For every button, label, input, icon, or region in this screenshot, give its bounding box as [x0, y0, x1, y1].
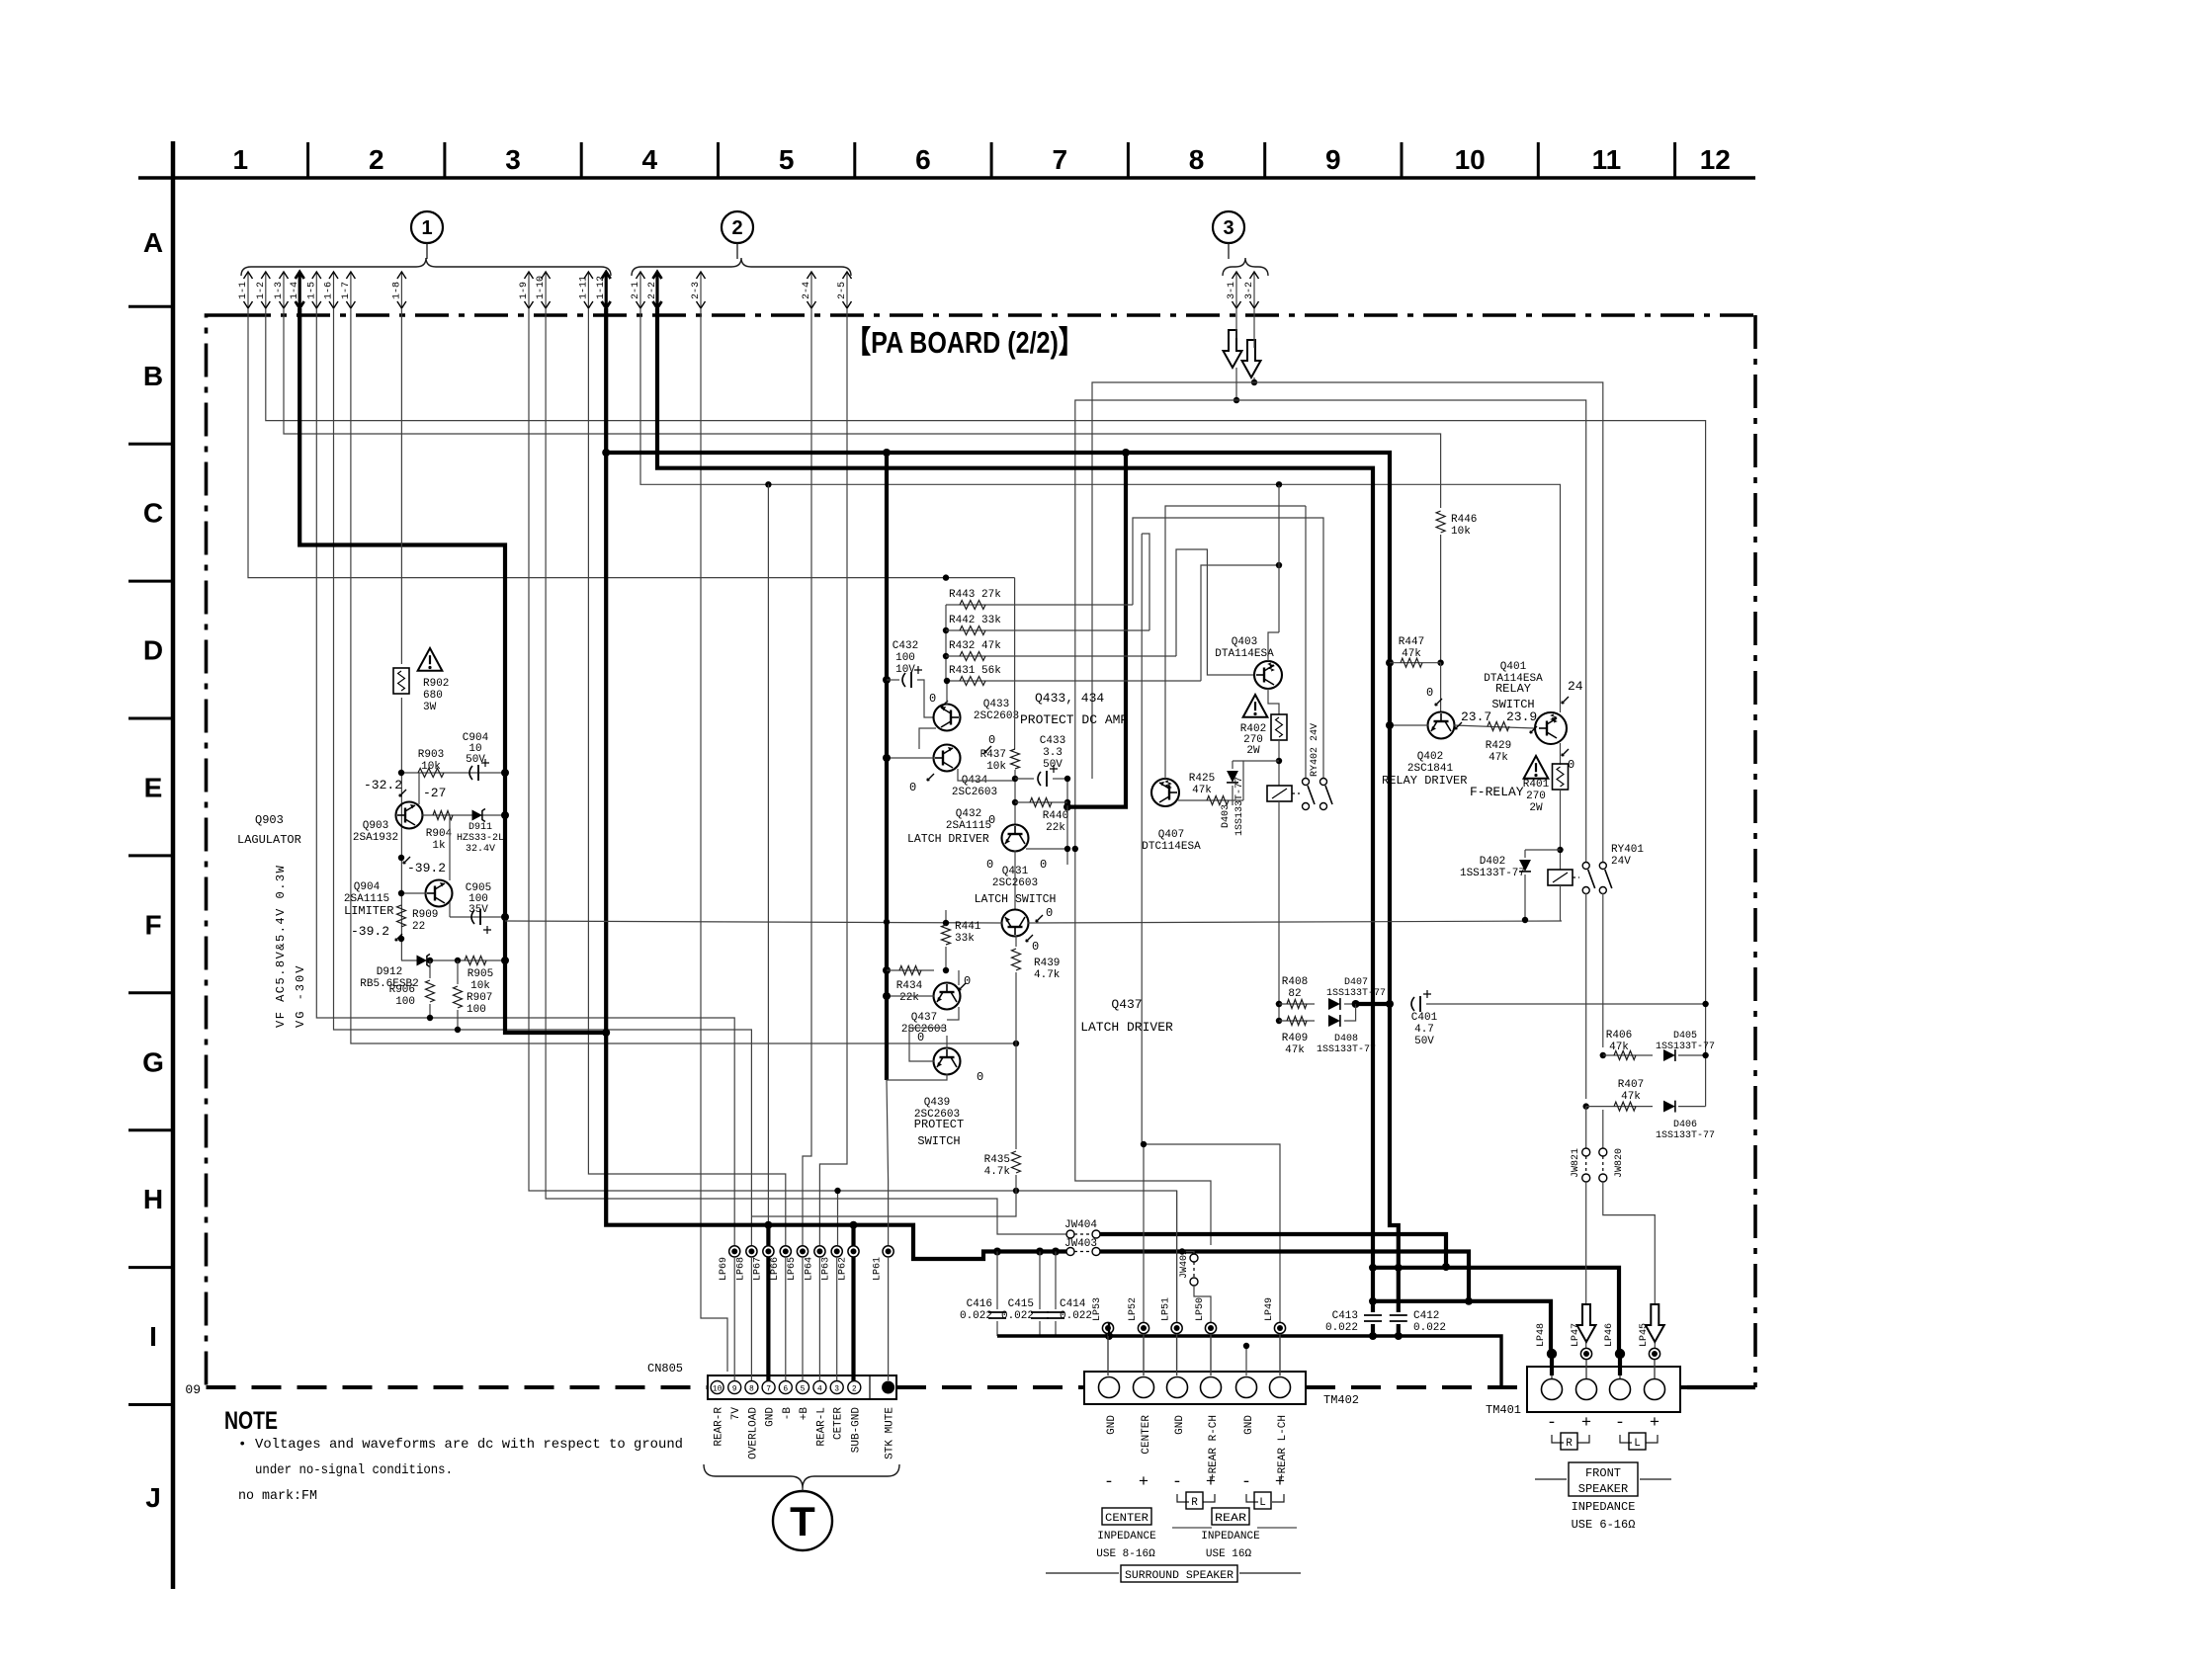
svg-text:22k: 22k	[1046, 822, 1065, 834]
svg-text:INPEDANCE: INPEDANCE	[1097, 1531, 1156, 1542]
resistor R434 22k	[883, 966, 891, 974]
svg-text:Q401: Q401	[1500, 661, 1527, 673]
connector pin 1-5	[315, 273, 317, 308]
svg-text:0: 0	[964, 974, 971, 988]
resistor R440 22k	[1012, 799, 1018, 805]
wire Q407 collector up y=512	[1165, 506, 1306, 779]
transistor Q403 DTA114ESA	[1254, 661, 1282, 689]
svg-text:+: +	[1206, 1473, 1216, 1492]
svg-text:47k: 47k	[1192, 785, 1212, 796]
svg-text:-: -	[1104, 1473, 1114, 1492]
node -39.2 lower	[398, 936, 404, 942]
wire Q434 collector down	[958, 769, 1015, 781]
svg-text:R903: R903	[418, 749, 444, 761]
svg-text:5: 5	[779, 144, 795, 175]
connector pin 2-2	[655, 273, 658, 308]
svg-text:R443 27k: R443 27k	[949, 589, 1001, 601]
svg-text:24: 24	[1568, 679, 1583, 694]
wire JW820 to LP45	[1603, 1182, 1656, 1358]
svg-text:1-12: 1-12	[596, 276, 607, 299]
FRONT SPEAKER box	[1535, 1478, 1567, 1480]
wire Q401 collector down	[1560, 743, 1562, 765]
transistor Q903 2SA1932	[396, 802, 423, 829]
jumper JW404	[997, 1230, 1066, 1234]
R box front	[1552, 1435, 1589, 1443]
svg-text:22: 22	[412, 921, 425, 933]
svg-text:D911: D911	[468, 822, 492, 833]
TM402 terminal GND	[1099, 1377, 1120, 1398]
resistor R435 4.7k	[1012, 1151, 1021, 1173]
svg-text:SWITCH: SWITCH	[917, 1134, 960, 1148]
svg-text:+B: +B	[799, 1407, 810, 1421]
diode D406 1SS133T-77	[1663, 1101, 1675, 1113]
TM402 terminal +REAR R-CH	[1201, 1377, 1222, 1398]
svg-text:PROTECT: PROTECT	[914, 1118, 964, 1131]
wire 1-7	[351, 308, 1016, 1043]
capacitor C401 4.7 50V	[1411, 997, 1414, 1011]
hollow arrow LP45	[1646, 1304, 1664, 1342]
svg-text:2: 2	[852, 1385, 857, 1394]
svg-text:LP64: LP64	[804, 1257, 814, 1281]
svg-text:1-9: 1-9	[519, 282, 530, 299]
svg-text:C433: C433	[1040, 735, 1065, 747]
svg-text:R401: R401	[1523, 779, 1550, 791]
wire 1-5	[316, 308, 734, 1245]
relay RY401 contacts	[1582, 863, 1589, 870]
connector pin 1-3	[283, 273, 285, 308]
svg-text:0: 0	[988, 733, 995, 747]
wire Q904 collector	[449, 902, 451, 917]
svg-text:C412: C412	[1413, 1310, 1439, 1322]
diode D911 HZS33-2L 32.4V	[465, 814, 505, 816]
node -39.2 upper	[398, 855, 404, 861]
svg-text:VG -30V: VG -30V	[294, 964, 307, 1028]
svg-text:35V: 35V	[468, 904, 488, 916]
svg-text:11: 11	[1592, 144, 1622, 175]
jumper JW820	[1602, 1110, 1604, 1148]
wire Q403 emitter up	[1268, 632, 1279, 661]
wire R402 to RY402 coil	[1278, 740, 1280, 786]
svg-text:+REAR R-CH: +REAR R-CH	[1208, 1415, 1220, 1480]
pad LP46	[1615, 1349, 1625, 1359]
resistor R904 1k	[422, 814, 465, 816]
CN805 pin 9 7V	[728, 1381, 741, 1394]
wire latch column	[1014, 578, 1016, 749]
svg-text:0.022: 0.022	[1060, 1310, 1092, 1322]
svg-text:LATCH DRIVER: LATCH DRIVER	[1080, 1020, 1173, 1035]
resistor ladder rail	[945, 605, 947, 681]
svg-text:R406: R406	[1606, 1030, 1632, 1042]
svg-text:-B: -B	[782, 1407, 794, 1421]
svg-text:D402: D402	[1480, 856, 1505, 868]
L box front	[1620, 1435, 1658, 1443]
wires pads to connector	[733, 1257, 735, 1380]
svg-text:CN805: CN805	[647, 1362, 683, 1375]
connector pin 1-12	[605, 273, 608, 308]
diode D407 1SS133T-77	[1328, 998, 1340, 1010]
transistor Q407 DTC114ESA	[1151, 779, 1179, 806]
svg-text:3-1: 3-1	[1227, 282, 1237, 299]
L box surround	[1246, 1494, 1284, 1502]
svg-text:Q433, 434: Q433, 434	[1035, 691, 1104, 706]
ruler frame	[138, 176, 1755, 180]
connector pin 1-7	[350, 273, 352, 308]
svg-text:1-10: 1-10	[536, 276, 547, 299]
svg-text:JW820: JW820	[1614, 1148, 1625, 1178]
resistor R905 10k	[465, 957, 486, 965]
svg-text:LP65: LP65	[787, 1257, 798, 1281]
pad LP49	[1274, 1322, 1285, 1333]
svg-text:R429: R429	[1486, 740, 1511, 752]
svg-text:2-4: 2-4	[802, 282, 812, 299]
resistor R903 10k	[401, 772, 505, 774]
heavy CN805 GND drop	[766, 1225, 770, 1381]
transistor Q434 2SC2603	[934, 745, 961, 772]
capacitor C412 0.022	[1390, 1312, 1407, 1324]
R box surround	[1177, 1494, 1215, 1502]
svg-text:Voltages and waveforms are dc: Voltages and waveforms are dc with respe…	[255, 1437, 683, 1453]
svg-text:Q402: Q402	[1417, 751, 1443, 763]
jumper JW821	[1585, 1107, 1587, 1148]
CN805 pin 3 CETER	[830, 1381, 843, 1394]
wire Q402 emitter to rail	[1390, 724, 1428, 726]
svg-text:3: 3	[1223, 217, 1234, 239]
svg-text:RELAY: RELAY	[1495, 682, 1531, 696]
wire latch to LP50	[1075, 849, 1211, 1245]
connector group 1 circled number	[411, 211, 443, 243]
svg-text:D: D	[143, 635, 163, 666]
connector pin 1-8	[400, 273, 402, 308]
riser R442 to y=540	[1142, 534, 1149, 630]
svg-text:09: 09	[185, 1382, 201, 1397]
svg-text:47k: 47k	[1621, 1091, 1641, 1103]
svg-text:RELAY DRIVER: RELAY DRIVER	[1382, 774, 1467, 788]
svg-text:5: 5	[801, 1385, 806, 1394]
svg-text:4.7: 4.7	[1414, 1024, 1434, 1036]
svg-text:2-2: 2-2	[647, 282, 658, 299]
wire Q903 emitter	[418, 773, 420, 804]
wire Q439	[909, 1028, 946, 1061]
svg-text:LP69: LP69	[719, 1257, 729, 1281]
pad LP62	[848, 1246, 859, 1257]
svg-text:Q407: Q407	[1158, 829, 1184, 841]
svg-text:PROTECT DC AMP: PROTECT DC AMP	[1020, 712, 1128, 727]
svg-text:J: J	[145, 1482, 161, 1513]
wire R401 to coil	[1560, 790, 1562, 870]
svg-text:D407: D407	[1344, 977, 1368, 988]
wire GND column from y=490.3	[767, 484, 769, 1224]
CN805 pin 7 GND	[762, 1381, 775, 1394]
svg-text:LP67: LP67	[752, 1257, 763, 1281]
connector pin 1-1	[247, 273, 249, 308]
svg-text:23.9: 23.9	[1506, 709, 1537, 724]
capacitor C904 10 50V	[469, 766, 472, 780]
resistor R442 33k	[946, 629, 1149, 631]
svg-text:4.7k: 4.7k	[984, 1166, 1011, 1178]
wire Q431 emitter down	[1015, 936, 1017, 947]
svg-text:2SA1115: 2SA1115	[946, 820, 991, 832]
svg-text:Q903: Q903	[255, 813, 284, 827]
svg-text:R434: R434	[896, 980, 923, 992]
svg-text:9: 9	[732, 1385, 737, 1394]
svg-text:R432 47k: R432 47k	[949, 640, 1001, 652]
transistor Q439 2SC2603 PROTECT SWITCH	[934, 1048, 961, 1075]
svg-text:INPEDANCE: INPEDANCE	[1201, 1531, 1260, 1542]
connector pin 1-6	[333, 273, 335, 308]
wire 2-4	[803, 308, 811, 1245]
heavy TM401 right stub	[1687, 1385, 1755, 1389]
svg-text:-32.2: -32.2	[364, 778, 402, 792]
heavy rail B 2-2 y=473.7	[657, 308, 1373, 1336]
connector group 3 circled number	[1213, 211, 1244, 243]
svg-text:0.022: 0.022	[960, 1310, 992, 1322]
svg-text:G: G	[142, 1046, 164, 1077]
svg-text:R439: R439	[1034, 958, 1060, 969]
wire 1-3 net y=439	[284, 308, 1441, 508]
brace connector 2	[632, 258, 851, 276]
relay RY402 contacts	[1303, 779, 1310, 786]
wire 1-10 branch LP69	[733, 1198, 735, 1200]
resistor R441 33k	[945, 910, 947, 923]
resistor R406 47k	[1600, 1052, 1606, 1058]
svg-text:6: 6	[915, 144, 931, 175]
wire TM402 GND pins	[1108, 1322, 1110, 1336]
heavy protect supply x=897	[885, 453, 889, 1080]
svg-text:Q432: Q432	[956, 808, 981, 820]
svg-text:R435: R435	[984, 1154, 1010, 1166]
capacitor C433 3.3 50V	[1012, 776, 1018, 782]
resistor R431 56k	[946, 680, 1201, 682]
svg-text:1SS133T-77: 1SS133T-77	[1460, 868, 1525, 879]
svg-text:22k: 22k	[899, 992, 919, 1004]
connector pin 3-1	[1235, 273, 1237, 308]
svg-text:Q433: Q433	[983, 699, 1009, 710]
svg-text:USE 6-16Ω: USE 6-16Ω	[1572, 1518, 1636, 1532]
svg-text:1SS133T-77: 1SS133T-77	[1656, 1042, 1715, 1052]
riser R432	[1176, 549, 1255, 675]
svg-text:LP62: LP62	[838, 1257, 849, 1281]
svg-text:R: R	[1566, 1438, 1573, 1450]
wire Q904 emitter up	[449, 815, 451, 880]
hollow arrow LP47	[1577, 1304, 1596, 1342]
TM402 terminal GND	[1236, 1377, 1257, 1398]
svg-text:CENTER: CENTER	[1105, 1513, 1149, 1525]
svg-text:270: 270	[1526, 791, 1546, 802]
transistor Q431 2SC2603 LATCH SWITCH	[1002, 910, 1029, 937]
svg-text:50V: 50V	[1043, 759, 1063, 771]
CN805 pin 6 -B	[779, 1381, 792, 1394]
svg-text:Q903: Q903	[363, 820, 388, 832]
svg-text:C432: C432	[893, 640, 918, 652]
pad LP65	[797, 1246, 808, 1257]
svg-text:no mark:FM: no mark:FM	[238, 1488, 317, 1504]
svg-text:GND: GND	[1174, 1415, 1186, 1435]
svg-text:R907: R907	[467, 992, 492, 1004]
svg-text:0: 0	[977, 1070, 983, 1084]
resistor R907 100	[455, 958, 461, 963]
svg-text:USE 16Ω: USE 16Ω	[1206, 1548, 1252, 1560]
wire C432 to Q433 base	[917, 680, 934, 717]
svg-text:LATCH DRIVER: LATCH DRIVER	[907, 833, 989, 846]
svg-text:LP68: LP68	[735, 1257, 746, 1281]
svg-text:VF AC5.8V&5.4V 0.3W: VF AC5.8V&5.4V 0.3W	[274, 865, 288, 1028]
svg-text:3W: 3W	[423, 702, 437, 713]
svg-text:REAR: REAR	[1215, 1513, 1246, 1525]
svg-text:INPEDANCE: INPEDANCE	[1572, 1500, 1636, 1514]
CN805 pin STK MUTE	[882, 1381, 894, 1394]
wire Q433/Q434 emitter join	[919, 728, 936, 749]
heavy link D407 to rails	[1356, 1002, 1391, 1006]
capacitor C416 0.022	[993, 1248, 1001, 1256]
connector pin 1-9	[528, 273, 530, 308]
svg-text:LIMITER: LIMITER	[344, 904, 393, 918]
svg-text:2-1: 2-1	[631, 282, 641, 299]
terminal block TM401	[1527, 1367, 1680, 1412]
capacitor C432 100 10V	[883, 676, 891, 684]
pad LP69	[729, 1246, 740, 1257]
terminal block TM402	[1084, 1372, 1306, 1404]
svg-text:R440: R440	[1043, 810, 1068, 822]
svg-text:2: 2	[369, 144, 384, 175]
diode D403 1SS133T-77	[1233, 760, 1279, 762]
SURROUND SPEAKER box	[1046, 1572, 1119, 1574]
wire Q904 base	[401, 892, 426, 894]
svg-text:R906: R906	[389, 984, 415, 996]
svg-text:1k: 1k	[432, 840, 446, 852]
pad LP52	[1138, 1322, 1149, 1333]
wire Q432 emitter/collector	[1026, 848, 1067, 850]
svg-text:3: 3	[505, 144, 521, 175]
resistor R425 47k	[1178, 799, 1243, 801]
svg-text:2SC2603: 2SC2603	[952, 787, 997, 798]
svg-text:R409: R409	[1282, 1033, 1308, 1044]
svg-text:LP53: LP53	[1092, 1297, 1103, 1321]
svg-text:C: C	[143, 498, 163, 529]
relay coil RY402	[1267, 786, 1292, 801]
svg-text:HZS33-2L: HZS33-2L	[457, 833, 504, 844]
svg-text:C401: C401	[1411, 1012, 1438, 1024]
svg-text:L: L	[1634, 1438, 1641, 1450]
connector group 2 circled number	[722, 211, 753, 243]
svg-text:10: 10	[713, 1385, 723, 1394]
svg-text:8: 8	[749, 1385, 754, 1394]
svg-text:+: +	[1275, 1473, 1285, 1492]
svg-text:FRONT: FRONT	[1585, 1466, 1621, 1480]
transistor Q433 2SC2603	[934, 705, 961, 731]
connector pin 1-10	[545, 273, 547, 308]
ground bus	[997, 1336, 1501, 1387]
svg-text:REAR-L: REAR-L	[815, 1407, 827, 1447]
svg-text:3.3: 3.3	[1043, 747, 1063, 759]
resistor R906 100	[427, 958, 433, 963]
svg-text:LP61: LP61	[873, 1257, 884, 1281]
svg-text:50V: 50V	[466, 754, 485, 766]
wire LP68 from R435	[751, 1191, 1016, 1216]
svg-text:SPEAKER: SPEAKER	[1578, 1482, 1628, 1496]
svg-text:10k: 10k	[986, 761, 1006, 773]
transistor Q432 2SA1115 LATCH DRIVER	[1002, 825, 1029, 852]
wire 2-5	[819, 308, 847, 1245]
svg-text:82: 82	[1288, 988, 1301, 1000]
diode D402 1SS133T-77	[1525, 849, 1561, 851]
wire Q437	[887, 995, 934, 997]
wire Q433 collector to ladder	[946, 681, 948, 705]
svg-text:GND: GND	[1243, 1415, 1255, 1435]
svg-text:R904: R904	[426, 828, 453, 840]
svg-text:LP52: LP52	[1128, 1297, 1139, 1321]
resistor R439 4.7k	[1012, 949, 1021, 970]
resistor R432 47k	[946, 655, 1176, 657]
svg-text:4: 4	[817, 1385, 822, 1394]
svg-text:3: 3	[834, 1385, 839, 1394]
resistor R402 270 2W	[1271, 714, 1287, 740]
svg-text:1: 1	[421, 217, 432, 239]
svg-text:8: 8	[1189, 144, 1205, 175]
wire net y=405	[1075, 400, 1586, 866]
pad LP68	[746, 1246, 757, 1257]
svg-text:+REAR L-CH: +REAR L-CH	[1277, 1415, 1289, 1480]
svg-text:1: 1	[233, 144, 249, 175]
svg-text:0: 0	[986, 858, 993, 872]
svg-text:6: 6	[783, 1385, 788, 1394]
svg-text:1-3: 1-3	[274, 282, 285, 299]
brace connector 1	[241, 258, 611, 276]
svg-text:C415: C415	[1008, 1298, 1034, 1310]
svg-text:F-RELAY: F-RELAY	[1470, 785, 1524, 799]
svg-text:A: A	[143, 227, 163, 258]
svg-text:47k: 47k	[1285, 1044, 1305, 1056]
transistor Q437 2SC2603	[934, 983, 961, 1010]
jumper JW402	[1182, 1252, 1194, 1255]
wire C433 right column	[1066, 779, 1068, 865]
svg-text:0: 0	[1040, 858, 1047, 872]
riser R443 to y=524	[1133, 518, 1323, 779]
transistor Q904 2SA1115	[426, 880, 453, 907]
svg-text:•: •	[238, 1437, 246, 1453]
svg-text:4: 4	[642, 144, 658, 175]
svg-text:R447: R447	[1399, 636, 1424, 648]
wire 1-2 long net y=425.6	[266, 308, 1706, 1107]
svg-text:0: 0	[1426, 686, 1433, 700]
svg-text:CENTER: CENTER	[1141, 1415, 1152, 1455]
svg-text:1-6: 1-6	[324, 282, 335, 299]
svg-text:-: -	[1172, 1473, 1182, 1492]
svg-text:0.022: 0.022	[1413, 1322, 1446, 1334]
wire 3-1 to node	[1235, 368, 1237, 400]
svg-text:10k: 10k	[421, 761, 441, 773]
svg-text:2: 2	[731, 217, 742, 239]
svg-text:OVERLOAD: OVERLOAD	[747, 1407, 759, 1459]
wire protect to STK MUTE	[887, 1080, 889, 1245]
svg-text:0: 0	[1032, 940, 1039, 954]
svg-text:+: +	[1581, 1414, 1591, 1433]
svg-text:JW403: JW403	[1064, 1238, 1097, 1250]
svg-text:9: 9	[1325, 144, 1341, 175]
wire 2-3	[701, 308, 727, 1372]
svg-text:DTA114ESA: DTA114ESA	[1215, 648, 1274, 660]
svg-text:REAR-R: REAR-R	[714, 1407, 725, 1447]
wire Q403 collector to R402	[1268, 689, 1279, 714]
warning triangle (regulator)	[418, 648, 443, 671]
hollow arrow 3-2	[1242, 340, 1261, 377]
svg-text:0.022: 0.022	[1325, 1322, 1358, 1334]
wire net B-row y=387	[1092, 382, 1603, 866]
svg-text:JW404: JW404	[1064, 1219, 1097, 1231]
capacitor C413 0.022	[1364, 1312, 1382, 1324]
svg-text:B: B	[143, 361, 163, 391]
svg-text:47k: 47k	[1402, 648, 1421, 660]
connector pin 2-4	[810, 273, 812, 308]
